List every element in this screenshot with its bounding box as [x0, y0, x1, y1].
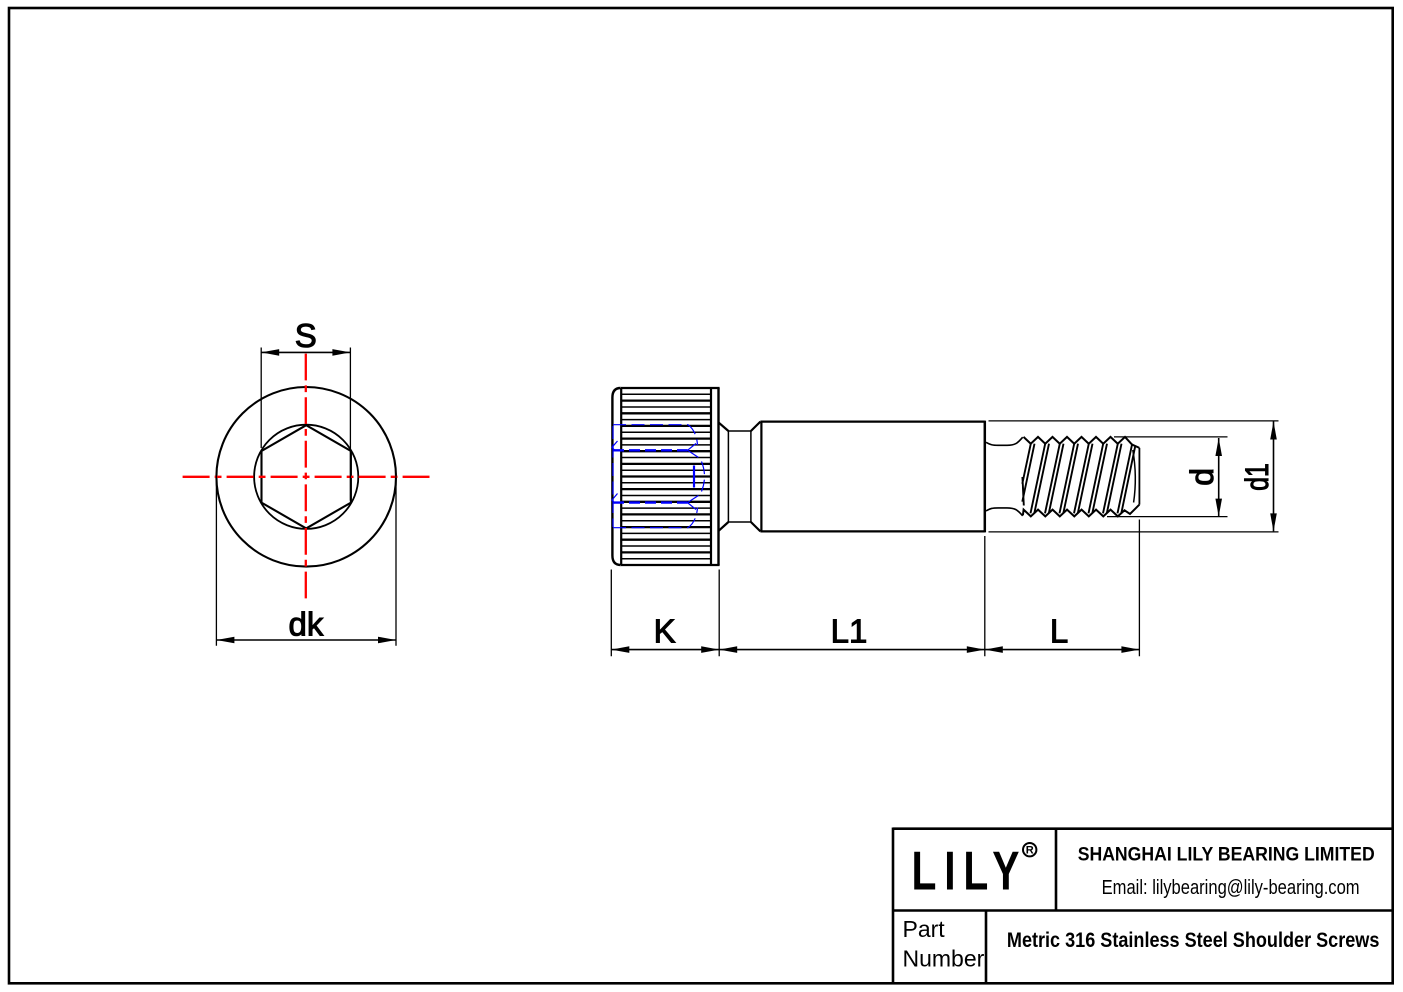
svg-text:K: K: [654, 613, 676, 650]
svg-text:d: d: [1184, 468, 1220, 486]
svg-text:LILY: LILY: [912, 839, 1028, 901]
svg-text:Part: Part: [903, 916, 946, 942]
svg-text:Email: lilybearing@lily-bearin: Email: lilybearing@lily-bearing.com: [1102, 877, 1360, 899]
svg-text:L1: L1: [831, 613, 868, 650]
svg-text:S: S: [295, 317, 317, 354]
svg-text:Metric 316 Stainless Steel Sho: Metric 316 Stainless Steel Shoulder Scre…: [1007, 928, 1380, 952]
svg-text:L: L: [1050, 613, 1068, 650]
svg-text:d1: d1: [1239, 463, 1275, 491]
svg-text:Number: Number: [903, 946, 985, 972]
svg-text:SHANGHAI LILY BEARING LIMITED: SHANGHAI LILY BEARING LIMITED: [1078, 844, 1375, 866]
svg-text:dk: dk: [288, 606, 323, 643]
svg-text:R: R: [1026, 845, 1034, 857]
